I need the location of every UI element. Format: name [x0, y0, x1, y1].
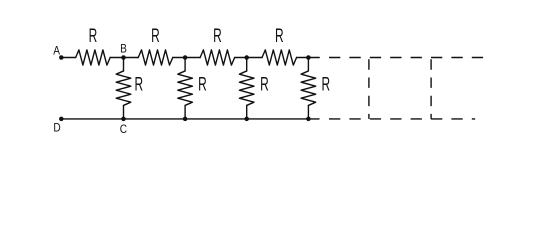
resistor R7 shunt at junction 3 [239, 58, 254, 119]
wire dashed top continuation [329, 57, 483, 59]
svg-text:A: A [53, 45, 60, 58]
junction top 3 [244, 55, 249, 60]
svg-text:R: R [198, 74, 207, 96]
svg-text:R: R [151, 25, 160, 47]
svg-text:B: B [120, 43, 127, 56]
resistor R5 shunt at node B [116, 58, 131, 119]
junction bottom 2 [183, 117, 188, 122]
resistor R2 [138, 50, 173, 65]
wire R3 to junction 3 [235, 57, 262, 59]
svg-text:R: R [275, 25, 284, 47]
wire top rail A to stub [61, 57, 75, 59]
junction bottom 4 [306, 117, 311, 122]
wire dashed vertical rung 2 [430, 59, 432, 119]
resistor R3 [200, 50, 235, 65]
wire R2 to junction 2 [173, 57, 200, 59]
node C [121, 117, 126, 122]
node B [121, 55, 126, 60]
node D [59, 117, 64, 122]
wire R4 to top stub end [297, 57, 320, 59]
resistor R1 [76, 50, 111, 65]
wire dashed bottom continuation [329, 118, 475, 120]
node A [59, 55, 64, 60]
svg-text:R: R [260, 74, 269, 96]
junction bottom 3 [244, 117, 249, 122]
junction top 2 [183, 55, 188, 60]
svg-text:R: R [134, 74, 143, 96]
resistor R6 shunt at junction 2 [178, 58, 193, 119]
resistor R4 [262, 50, 297, 65]
svg-text:R: R [89, 25, 98, 47]
svg-text:D: D [53, 122, 60, 135]
svg-text:C: C [120, 123, 127, 136]
junction top 4 [306, 55, 311, 60]
svg-text:R: R [321, 74, 330, 96]
wire bottom rail D to stub end [61, 118, 319, 120]
wire dashed vertical rung 1 [368, 59, 370, 119]
resistor R8 shunt at junction 4 [301, 58, 316, 119]
wire R1 to node B [110, 57, 138, 59]
svg-text:R: R [213, 25, 222, 47]
